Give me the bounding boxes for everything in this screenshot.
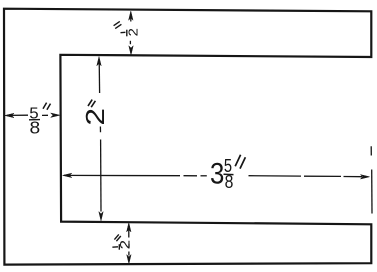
svg-text:3: 3	[210, 157, 224, 190]
svg-text:8: 8	[225, 171, 234, 193]
label 1/2" (rotated) bottom	[112, 234, 120, 249]
arrow left	[5, 113, 14, 117]
arrow down	[99, 212, 103, 221]
dash	[128, 244, 130, 248]
dash	[129, 41, 131, 44]
dash	[99, 127, 101, 133]
svg-text:2: 2	[118, 240, 133, 249]
dimension: bottom 1/2 inch vertical	[127, 223, 132, 264]
label 2" (rotated)	[88, 100, 95, 108]
arrow down	[128, 252, 130, 256]
svg-text:2: 2	[125, 28, 140, 37]
dimension: 3 5/8 inch horizontal	[63, 146, 372, 213]
svg-text:2: 2	[81, 108, 110, 126]
arrow down	[129, 46, 133, 55]
dimension: 5/8 inch horizontal	[5, 113, 60, 118]
dash	[42, 114, 48, 116]
arrow up	[127, 223, 131, 232]
arrow up	[97, 57, 101, 66]
svg-text:8: 8	[29, 117, 40, 137]
dimension: top 1/2 inch vertical	[129, 11, 134, 55]
extension line	[370, 146, 372, 155]
arrow right	[51, 113, 60, 117]
label 1/2" (rotated) top	[114, 21, 127, 36]
arrow left	[63, 173, 72, 177]
arrow up	[129, 11, 133, 20]
arrow right	[360, 175, 369, 179]
dimension: 2 inch vertical	[97, 57, 103, 221]
